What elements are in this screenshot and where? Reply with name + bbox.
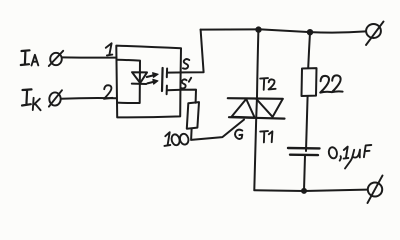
wire R1 to gate: [191, 120, 244, 140]
wire capacitor to bottom: [304, 156, 305, 191]
optocoupler U1 box: [116, 46, 181, 118]
terminal IA: [49, 51, 63, 66]
wire branch to R2: [308, 33, 310, 69]
terminal IK: [49, 90, 62, 106]
wire T2 vertical through triac to T1: [254, 30, 258, 190]
label 100: [164, 132, 189, 146]
pin label 2: [104, 85, 112, 99]
label T2: [260, 78, 275, 90]
resistor R1 100: [187, 102, 199, 129]
bottom wire: [254, 190, 366, 191]
label 0,1 uF: [328, 145, 371, 169]
label G: [235, 130, 242, 139]
terminal bottom right: [368, 176, 383, 204]
LED anode wire: [117, 60, 140, 103]
label 22: [320, 75, 342, 92]
input label IA: [21, 50, 39, 65]
resistor R2 22: [302, 68, 317, 96]
wire S' to R1: [167, 90, 196, 103]
capacitor C1: [288, 148, 320, 155]
label T1: [260, 131, 272, 142]
light arrow 2: [147, 79, 158, 84]
LED D1: [132, 72, 147, 84]
label S': [181, 78, 191, 89]
terminal top right: [366, 22, 384, 46]
triac V1: [228, 98, 285, 118]
input label IK: [22, 89, 41, 110]
pin label 1: [106, 43, 113, 55]
photodetector: [162, 68, 167, 94]
wire input K: [61, 97, 117, 100]
light arrow 1: [147, 73, 158, 78]
label S: [183, 59, 189, 69]
junction node B: [307, 29, 313, 35]
wire R2 to capacitor: [306, 96, 308, 151]
wire S to top: [168, 30, 204, 73]
top wire: [201, 29, 366, 32]
junction node C: [301, 188, 307, 194]
wire input A: [62, 56, 117, 58]
junction node A: [255, 26, 261, 32]
